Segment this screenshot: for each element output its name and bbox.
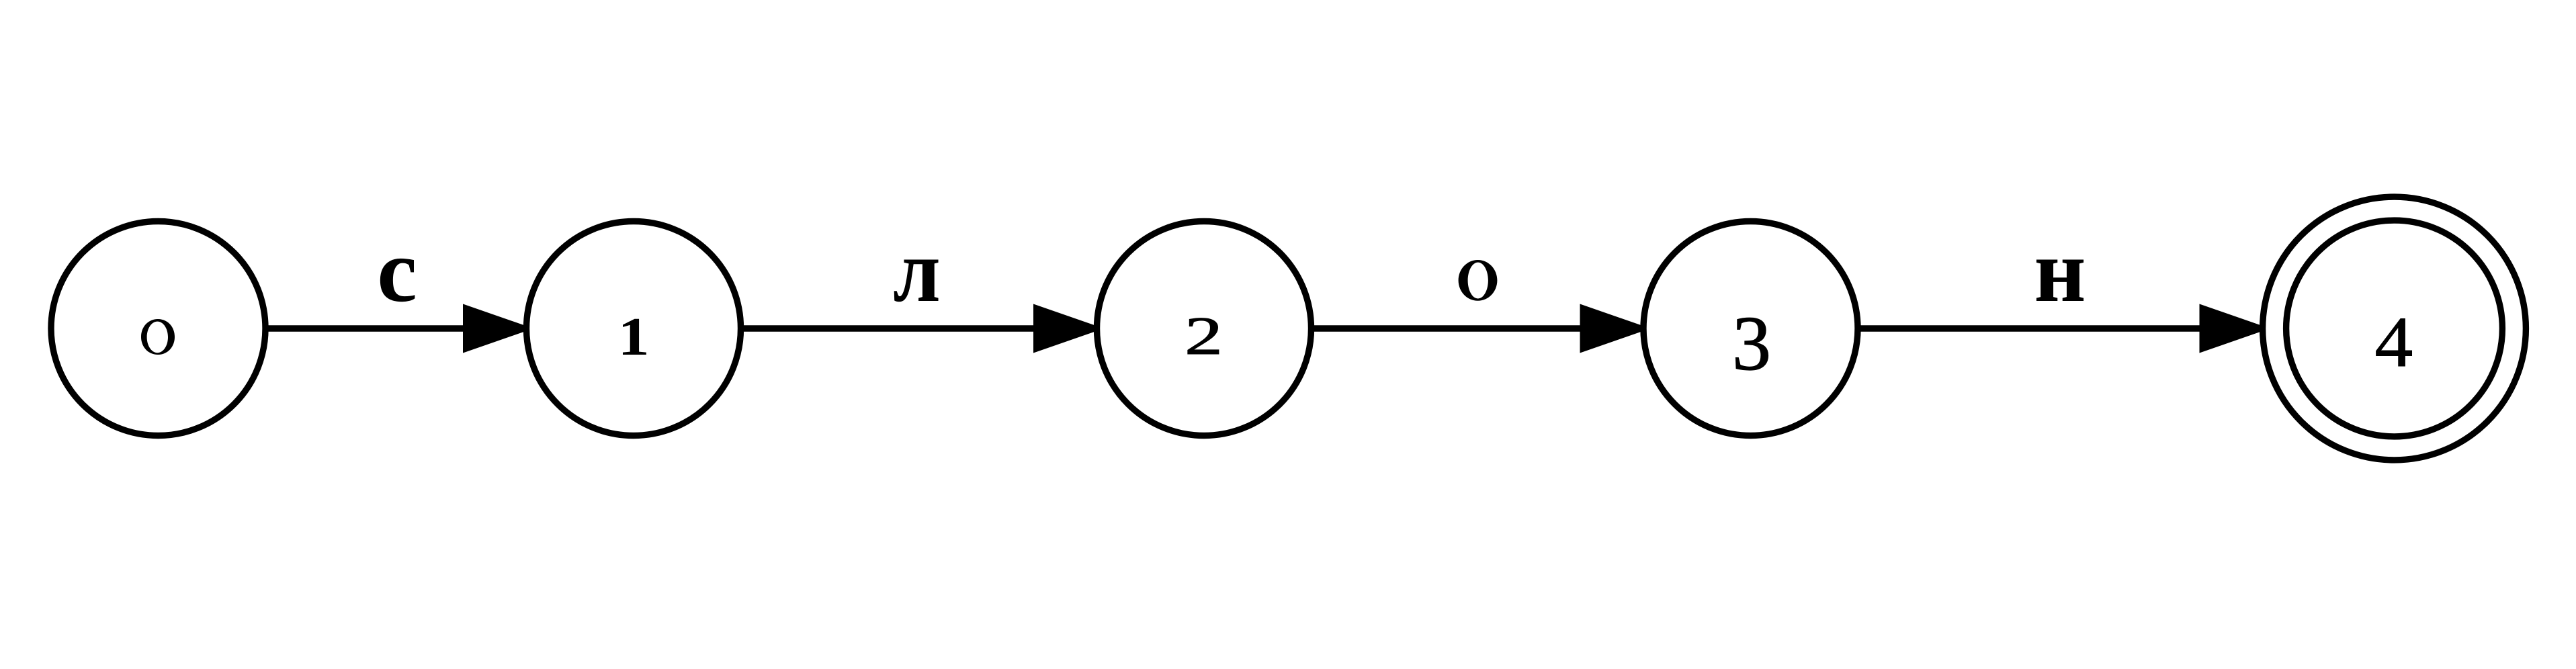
state 2 circle [1097,222,1312,436]
state 1 label [617,306,649,367]
wire edge 0->1 [262,325,521,331]
edge label л [893,221,941,320]
state 4 outer circle (accepting) [2263,197,2526,460]
svg-text:1: 1 [617,306,649,367]
svg-text:4: 4 [2374,302,2413,382]
arrowhead 0->1 [463,304,533,353]
state 0 label [141,319,175,355]
arrowhead 1->2 [1033,304,1104,353]
state 2 label [1185,306,1223,366]
state 3 circle [1643,222,1858,436]
state 3 label [1732,301,1771,387]
state 1 circle [527,222,741,436]
wire edge 2->3 [1308,325,1638,331]
state 4 inner circle [2286,220,2503,437]
svg-text:с: с [377,221,417,320]
wire edge 3->4 [1854,325,2258,331]
arrowhead 2->3 [1580,304,1651,353]
edge label о [1459,260,1498,301]
arrowhead 3->4 [2200,304,2270,353]
wire edge 1->2 [738,325,1092,331]
state 0 circle [51,222,265,436]
svg-text:2: 2 [1185,306,1223,366]
svg-text:3: 3 [1732,301,1771,387]
state 4 label [2374,302,2413,382]
svg-text:н: н [2034,221,2086,320]
svg-text:л: л [893,221,941,320]
